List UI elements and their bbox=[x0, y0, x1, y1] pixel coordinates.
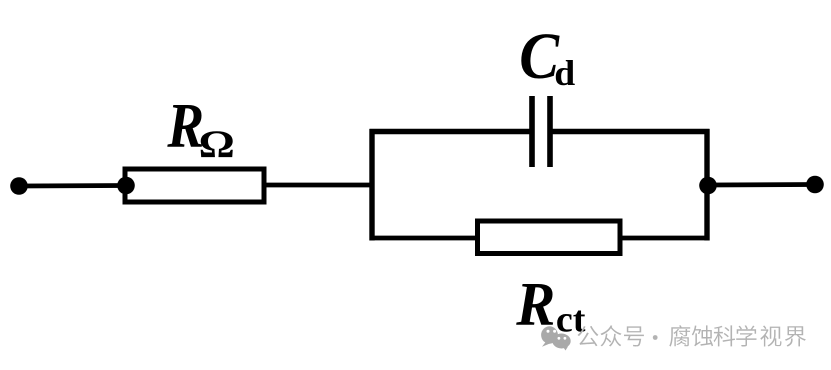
svg-text:d: d bbox=[554, 53, 575, 93]
wire: loop bottom, right of R_ct bbox=[620, 236, 710, 241]
watermark separator dot bbox=[653, 335, 658, 340]
wire: loop left vertical bbox=[369, 129, 374, 241]
wire: left terminal to node A bbox=[19, 183, 126, 188]
wire: loop right vertical bbox=[704, 129, 709, 241]
watermark wechat icon: white eyes bbox=[547, 330, 567, 340]
watermark wechat icon: back bubble bbox=[541, 326, 571, 350]
svg-text:Ω: Ω bbox=[199, 123, 235, 166]
wire: node B to right terminal bbox=[708, 182, 815, 187]
terminal dot right bbox=[806, 176, 824, 194]
wire: loop top, left of capacitor bbox=[370, 129, 532, 134]
wire: loop top, right of capacitor bbox=[551, 129, 710, 134]
watermark wechat icon: front bubble bbox=[552, 334, 570, 349]
capacitor C_d right plate bbox=[547, 96, 553, 167]
watermark text: 公众号 · 腐蚀科学视界 bbox=[578, 325, 806, 346]
capacitor C_d left plate bbox=[529, 96, 535, 167]
resistor R_ohm body bbox=[125, 169, 264, 202]
wire: loop bottom, left of R_ct bbox=[370, 236, 479, 241]
wire: resistor R_ohm to parallel loop bbox=[264, 183, 374, 188]
node A junction dot bbox=[117, 177, 135, 195]
terminal dot left bbox=[10, 177, 28, 195]
resistor R_ct body bbox=[478, 221, 621, 254]
node B junction dot bbox=[699, 177, 717, 195]
